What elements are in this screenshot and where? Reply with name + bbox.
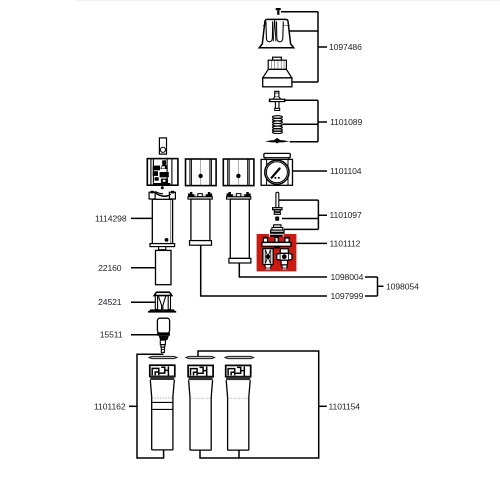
pin 1101097 <box>273 192 282 214</box>
left valve of 1101112 <box>263 249 273 270</box>
valve head 3 <box>223 159 254 186</box>
leader 1097999 from cylinder 2 <box>201 245 327 296</box>
funnel 24521 <box>148 292 176 312</box>
seal 1101097 <box>275 217 279 221</box>
knob 1097486 <box>259 19 294 47</box>
leader line 1101162 <box>129 405 137 407</box>
leader lines 1101089 <box>283 100 327 142</box>
svg-text:1098054: 1098054 <box>386 281 419 291</box>
bracket 1101162 <box>137 354 164 458</box>
leader line 1101112 <box>296 242 327 244</box>
head 1 internal valves <box>153 160 171 185</box>
svg-text:1097999: 1097999 <box>331 291 364 301</box>
svg-text:24521: 24521 <box>98 297 122 307</box>
mounting rails <box>149 356 254 358</box>
leader line 22160 <box>131 267 155 269</box>
washer seal 1101089 <box>265 138 290 144</box>
leader 1098004 from cylinder 3 <box>239 263 327 277</box>
right valve of 1101112 <box>277 249 292 270</box>
spring 1101089 <box>272 116 282 134</box>
cylinder 2 <box>188 192 212 245</box>
cartridge 1101162 <box>150 365 175 450</box>
cap bushing 1097486 <box>263 57 292 87</box>
red highlight box 1101112 <box>257 234 297 271</box>
svg-text:15511: 15511 <box>100 330 123 340</box>
valve stem 1101089 <box>269 91 286 110</box>
svg-text:1101162: 1101162 <box>94 401 126 411</box>
leader line 1101154 <box>319 405 327 407</box>
svg-text:1101089: 1101089 <box>330 117 362 127</box>
leader line 1114298 <box>131 217 152 219</box>
svg-text:1101154: 1101154 <box>329 401 361 411</box>
bottle 15511 <box>157 318 170 352</box>
screw dot above cylinder 1 <box>161 186 164 189</box>
svg-text:1097486: 1097486 <box>329 42 362 52</box>
leader line 15511 <box>131 334 157 336</box>
cylinder 3 <box>227 192 251 263</box>
cylinder 1114298 <box>149 191 175 255</box>
cartridge 1 extra band <box>152 402 172 409</box>
manifold part in red box <box>262 237 291 249</box>
svg-text:1098004: 1098004 <box>331 272 364 282</box>
cartridge 3 <box>226 365 251 450</box>
svg-text:1101112: 1101112 <box>330 239 361 249</box>
valve head 2 <box>186 159 217 186</box>
svg-text:1101097: 1101097 <box>330 210 362 220</box>
leader lines 1101097 <box>279 200 327 229</box>
valve head 1 <box>147 159 178 186</box>
cap base bar overlapping red <box>270 235 283 237</box>
leader line 24521 <box>131 301 155 303</box>
svg-text:22160: 22160 <box>98 263 122 273</box>
leader line 1101104 <box>289 170 327 172</box>
cartridge 22160 <box>156 250 172 284</box>
cartridge 2 <box>188 365 213 450</box>
faint page edge line <box>75 0 500 1</box>
cap 1101097 <box>270 225 284 234</box>
svg-text:1101104: 1101104 <box>330 166 362 176</box>
white notch top of red box <box>269 234 284 237</box>
enclosure 1101154 <box>198 351 319 458</box>
screw <box>276 8 281 15</box>
leader lines 1097486 <box>281 12 327 82</box>
gauge head 1101104 <box>261 153 292 185</box>
small plate above head 1 <box>159 138 166 154</box>
svg-text:1114298: 1114298 <box>95 213 127 223</box>
